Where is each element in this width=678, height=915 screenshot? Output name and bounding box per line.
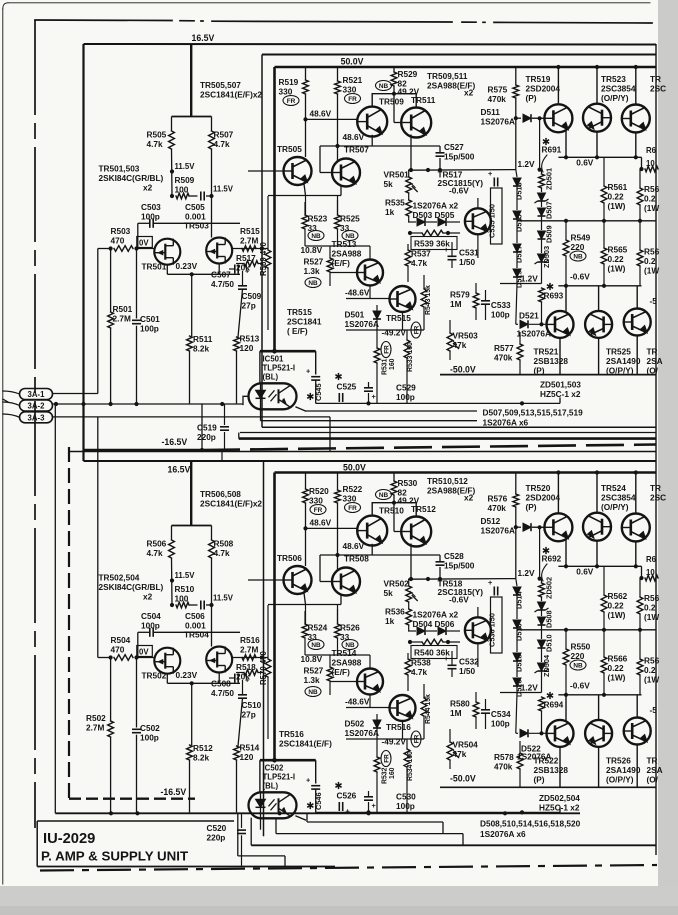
- resistor R60x: [641, 157, 643, 169]
- svg-text:11.5V: 11.5V: [213, 594, 234, 603]
- capacitor C520: [241, 813, 243, 828]
- svg-text:1S2076A x2: 1S2076A x2: [413, 202, 459, 211]
- svg-text:VR503: VR503: [453, 332, 479, 341]
- wire gate lead: [137, 248, 155, 250]
- resistor R511: [187, 336, 193, 351]
- svg-text:FR: FR: [348, 505, 357, 512]
- wire 3A-3: [53, 416, 331, 418]
- -16.5V rail solid: [84, 449, 203, 452]
- transistor TR506: [284, 566, 312, 594]
- svg-text:2SD2004: 2SD2004: [526, 85, 561, 94]
- svg-text:470: 470: [111, 237, 125, 246]
- transistor TR508: [332, 568, 360, 596]
- svg-text:-16.5V: -16.5V: [161, 787, 187, 797]
- capacitor C507: [234, 265, 236, 274]
- zener ZD502: [541, 597, 543, 601]
- long bottom bus: [55, 812, 580, 814]
- node 48.6V: [303, 117, 307, 121]
- svg-text:2SC1841: 2SC1841: [287, 318, 322, 327]
- wire TR509 collector: [372, 94, 394, 107]
- svg-text:100: 100: [175, 186, 189, 195]
- svg-text:48.6V: 48.6V: [343, 542, 365, 551]
- wire TR517 emitter: [477, 234, 479, 258]
- wire TR515 emitter: [402, 312, 404, 330]
- svg-text:1M: 1M: [450, 709, 462, 718]
- svg-text:4.7/50: 4.7/50: [211, 689, 234, 698]
- svg-text:-1.2V: -1.2V: [518, 684, 538, 693]
- resistor R523: [302, 215, 308, 229]
- svg-text:D513: D513: [515, 182, 524, 200]
- wire -1.2V bus: [500, 692, 542, 694]
- svg-text:D509: D509: [545, 225, 554, 243]
- svg-text:1S2076A: 1S2076A: [481, 118, 515, 127]
- svg-text:(O/P/Y): (O/P/Y): [601, 503, 629, 512]
- svg-text:5k: 5k: [384, 589, 394, 598]
- box bottom line 1: [262, 426, 656, 428]
- wire TR505 col: [305, 119, 307, 157]
- svg-text:NB: NB: [308, 280, 318, 287]
- svg-text:33: 33: [308, 224, 318, 233]
- svg-text:-0.6V: -0.6V: [449, 596, 469, 605]
- capacitor C501: [136, 249, 138, 319]
- svg-text:R565: R565: [608, 246, 628, 255]
- svg-text:R549: R549: [571, 234, 591, 243]
- svg-text:2SKI84C(GR/BL): 2SKI84C(GR/BL): [99, 583, 164, 592]
- svg-text:TR506: TR506: [277, 554, 302, 563]
- svg-text:1/50: 1/50: [459, 258, 475, 267]
- svg-text:ZD503: ZD503: [542, 246, 551, 268]
- svg-text:TR: TR: [647, 348, 658, 357]
- transistor TR516: [390, 695, 416, 721]
- svg-text:+: +: [372, 801, 376, 810]
- svg-text:1S2076A x2: 1S2076A x2: [413, 611, 459, 620]
- svg-text:R503: R503: [111, 227, 131, 236]
- svg-text:11.5V: 11.5V: [175, 162, 196, 171]
- svg-text:160: 160: [389, 358, 396, 370]
- connector 3A-3: [20, 412, 53, 423]
- svg-text:R511: R511: [193, 335, 213, 344]
- wire source down: [191, 683, 193, 745]
- wire R507 column: [211, 149, 213, 238]
- staircase line 1 lower: [307, 821, 443, 823]
- svg-text:48.6V: 48.6V: [310, 110, 332, 119]
- svg-text:R508: R508: [214, 540, 234, 549]
- svg-text:NB: NB: [311, 233, 321, 240]
- svg-text:R506: R506: [147, 540, 167, 549]
- svg-text:TR513: TR513: [332, 240, 357, 249]
- diode D520: [513, 678, 521, 686]
- wire 1.2V col: [515, 118, 517, 169]
- transistor TR512: [401, 517, 431, 547]
- FET TR501: [154, 239, 180, 265]
- diode D510: [538, 640, 546, 648]
- svg-text:2SC3854: 2SC3854: [601, 494, 636, 503]
- svg-text:27p: 27p: [242, 711, 256, 720]
- transistor TR509: [357, 107, 387, 137]
- svg-text:C534: C534: [491, 710, 511, 719]
- wire TR509 collector: [372, 503, 394, 516]
- resistor R512: [187, 745, 193, 760]
- svg-text:0.22: 0.22: [608, 664, 624, 673]
- wire R507 column: [211, 558, 213, 647]
- capacitor C508: [234, 674, 236, 683]
- svg-text:3A-1: 3A-1: [28, 390, 46, 399]
- svg-text:C510: C510: [242, 701, 262, 710]
- svg-text:(O/P/Y): (O/P/Y): [601, 94, 629, 103]
- svg-text:R56: R56: [644, 248, 660, 257]
- svg-text:R693: R693: [544, 292, 564, 301]
- resistor R56x right b: [637, 659, 643, 675]
- wire TR507 base: [337, 146, 339, 161]
- svg-text:0.22: 0.22: [608, 602, 624, 611]
- wire 3A-3 feed to lower half: [97, 417, 99, 658]
- svg-text:470: 470: [111, 646, 125, 655]
- svg-text:0.001: 0.001: [185, 213, 206, 222]
- transistor TR523b: [622, 105, 650, 133]
- svg-text:11.5V: 11.5V: [213, 185, 234, 194]
- wire out collectors: [559, 747, 561, 787]
- label C526: [338, 782, 340, 789]
- wire 1.2V bus: [408, 578, 516, 581]
- svg-text:TR519: TR519: [526, 75, 551, 84]
- wire TR513 up: [369, 655, 371, 669]
- capacitor C531: [448, 255, 457, 257]
- resistor R533: [404, 340, 410, 358]
- svg-text:+: +: [444, 245, 448, 254]
- svg-text:R692: R692: [542, 555, 562, 564]
- svg-text:1S2076A: 1S2076A: [481, 527, 515, 536]
- svg-text:(1W): (1W): [608, 202, 626, 211]
- svg-text:C519: C519: [197, 424, 217, 433]
- amp enclosure box lower: [263, 461, 265, 836]
- -16.5V rail lower dashed: [69, 798, 195, 800]
- svg-text:(1W): (1W): [608, 674, 626, 683]
- label 0V box: [137, 646, 153, 657]
- svg-text:120: 120: [240, 753, 254, 762]
- resistor R534: [404, 749, 410, 767]
- capacitor C502: [136, 658, 138, 728]
- resistor R691: [539, 174, 545, 188]
- label * r693: [549, 692, 551, 699]
- svg-text:2SKI84C(GR/BL): 2SKI84C(GR/BL): [99, 174, 164, 183]
- transistor TR523a: [583, 104, 611, 132]
- svg-text:470k: 470k: [494, 763, 513, 772]
- wire LED cathode: [260, 818, 262, 829]
- resistor R549: [563, 240, 569, 256]
- resistor R519: [305, 67, 307, 80]
- resistor R527: [327, 667, 333, 681]
- wire -48.6V: [346, 298, 390, 300]
- resistor R561: [601, 186, 607, 203]
- svg-text:D511: D511: [481, 108, 501, 117]
- svg-text:R6: R6: [646, 555, 657, 564]
- connector 3A-1: [20, 389, 53, 400]
- svg-text:C531: C531: [459, 249, 479, 258]
- resistor R578: [517, 753, 523, 769]
- svg-text:R694: R694: [544, 701, 564, 710]
- svg-text:TR502: TR502: [142, 672, 167, 681]
- resistor R514: [238, 698, 243, 746]
- svg-text:0.23V: 0.23V: [176, 262, 198, 271]
- svg-text:4.7k: 4.7k: [147, 549, 163, 558]
- wire emitters to 0.6V bus: [565, 540, 567, 566]
- wire x202 bus drop: [201, 403, 203, 450]
- svg-text:15p/500: 15p/500: [444, 562, 475, 571]
- svg-text:R533 160: R533 160: [407, 342, 414, 372]
- svg-text:TR506,508: TR506,508: [200, 490, 241, 499]
- svg-text:0.22: 0.22: [608, 193, 624, 202]
- svg-text:R502: R502: [86, 714, 106, 723]
- svg-text:10.8V: 10.8V: [301, 655, 323, 664]
- wire ladder to d521: [516, 693, 517, 734]
- capacitor C505: [189, 195, 198, 197]
- diode D508: [541, 610, 543, 616]
- svg-text:2SC1841(E/F)x2: 2SC1841(E/F)x2: [200, 91, 262, 100]
- svg-text:R515: R515: [240, 227, 260, 236]
- potentiometer VR504: [447, 742, 453, 760]
- staircase line 1 upper: [306, 410, 478, 412]
- potentiometer VR501: [406, 177, 412, 193]
- 16.5V rail lower half: [84, 460, 657, 462]
- svg-text:(P): (P): [526, 94, 537, 103]
- svg-text:16.5V: 16.5V: [192, 33, 215, 43]
- capacitor C530: [368, 802, 370, 812]
- capacitor C509: [242, 271, 244, 286]
- svg-text:3A-3: 3A-3: [28, 413, 46, 422]
- svg-text:2SC1841(E/F): 2SC1841(E/F): [279, 740, 332, 749]
- frame left vertical: [82, 44, 84, 461]
- svg-text:D521: D521: [519, 312, 539, 321]
- label R540 box: [411, 646, 457, 659]
- svg-text:2SC1841(E/F)x2: 2SC1841(E/F)x2: [200, 500, 262, 509]
- svg-text:(P): (P): [534, 776, 545, 785]
- wire TR511 emitter: [410, 544, 412, 580]
- right border: [655, 44, 657, 855]
- transistor TR515: [390, 286, 416, 312]
- svg-text:-5: -5: [650, 706, 658, 715]
- svg-text:HZ5C-1 x2: HZ5C-1 x2: [539, 804, 580, 813]
- svg-text:0.23V: 0.23V: [176, 671, 198, 680]
- svg-text:2SA1490: 2SA1490: [606, 357, 641, 366]
- -16.5V rail dashed: [202, 445, 656, 451]
- resistor R517: [244, 261, 258, 267]
- svg-text:4.7k: 4.7k: [214, 549, 230, 558]
- svg-text:-16.5V: -16.5V: [162, 437, 188, 447]
- svg-text:-0.6V: -0.6V: [449, 187, 469, 196]
- svg-text:NB: NB: [379, 492, 389, 499]
- FET TR502: [154, 648, 180, 674]
- svg-text:ZD502,504: ZD502,504: [539, 794, 580, 803]
- svg-text:R577: R577: [494, 344, 514, 353]
- diode D502: [373, 720, 381, 728]
- wire x222 drop: [221, 450, 223, 461]
- svg-text:C508: C508: [211, 680, 231, 689]
- svg-text:C527: C527: [444, 143, 464, 152]
- svg-text:R537: R537: [411, 250, 431, 259]
- svg-text:100p: 100p: [396, 393, 415, 402]
- svg-text:0.6V: 0.6V: [576, 158, 593, 167]
- svg-text:TLP521-I: TLP521-I: [263, 364, 296, 373]
- svg-text:C505: C505: [185, 203, 205, 212]
- svg-text:R561: R561: [608, 183, 628, 192]
- svg-text:R518: R518: [236, 663, 256, 672]
- resistor R540: [422, 639, 443, 645]
- svg-text:1S2076A x6: 1S2076A x6: [480, 830, 526, 839]
- svg-text:C530: C530: [396, 793, 416, 802]
- capacitor C504: [149, 628, 151, 637]
- svg-text:(1W: (1W: [644, 613, 659, 622]
- svg-text:-5: -5: [650, 297, 658, 306]
- svg-text:C501: C501: [140, 315, 160, 324]
- diode D503 D505: [408, 221, 416, 223]
- svg-text:-1.2V: -1.2V: [518, 275, 538, 284]
- svg-text:-50.0V: -50.0V: [450, 365, 476, 375]
- svg-text:C535 1/50: C535 1/50: [488, 204, 497, 238]
- svg-text:0.22: 0.22: [608, 255, 624, 264]
- resistor R565: [601, 248, 607, 264]
- svg-text:33: 33: [308, 633, 318, 642]
- wire TR517 emitter: [477, 643, 479, 667]
- diode D501: [373, 311, 381, 319]
- svg-text:0V: 0V: [139, 648, 149, 657]
- svg-text:R527: R527: [304, 258, 324, 267]
- svg-text:TR516: TR516: [279, 730, 304, 739]
- svg-text:R579: R579: [450, 291, 470, 300]
- -16.5V dashed feed vertical: [68, 447, 70, 799]
- svg-text:TR502,504: TR502,504: [99, 574, 140, 583]
- wire TR505 base: [248, 170, 284, 172]
- capacitor C546: [311, 785, 320, 787]
- wire opto emitter: [296, 407, 306, 411]
- svg-text:10: 10: [646, 159, 655, 168]
- svg-text:R550: R550: [571, 643, 591, 652]
- resistor R543: [421, 289, 427, 307]
- svg-text:TR514: TR514: [332, 649, 357, 658]
- capacitor C529: [368, 393, 370, 403]
- svg-text:C529: C529: [396, 384, 416, 393]
- svg-text:C526: C526: [337, 792, 357, 801]
- resistor R562: [601, 595, 607, 612]
- wire gate lead: [137, 657, 155, 659]
- svg-text:x2: x2: [464, 494, 474, 503]
- wire TR511 collector: [394, 503, 416, 517]
- svg-text:FR: FR: [384, 754, 391, 763]
- svg-text:TR512: TR512: [411, 505, 436, 514]
- svg-text:0.6V: 0.6V: [576, 567, 593, 576]
- diode D517: [513, 244, 521, 252]
- resistor R692: [539, 583, 545, 597]
- resistor R507: [211, 117, 213, 132]
- wire opto emitter: [296, 816, 306, 820]
- resistor R577: [517, 344, 523, 360]
- transistor TR523a: [583, 513, 611, 541]
- transistor TR525b: [624, 309, 651, 336]
- svg-text:VR502: VR502: [384, 580, 410, 589]
- svg-text:R543 15k: R543 15k: [425, 285, 432, 315]
- resistor R579: [473, 293, 479, 308]
- zener ZD504: [538, 663, 546, 671]
- svg-text:47k: 47k: [453, 341, 467, 350]
- svg-text:FR: FR: [314, 507, 323, 514]
- resistor R566: [601, 657, 607, 673]
- svg-text:P. AMP & SUPPLY UNIT: P. AMP & SUPPLY UNIT: [41, 849, 188, 864]
- svg-text:2.7M: 2.7M: [86, 724, 104, 733]
- svg-text:NB: NB: [311, 642, 321, 649]
- wire opto bus: [316, 811, 560, 813]
- label R539 box: [411, 237, 457, 250]
- svg-text:C506: C506: [185, 612, 205, 621]
- transistor TR513: [357, 260, 383, 286]
- svg-text:0.001: 0.001: [185, 622, 206, 631]
- wire -49 bus: [346, 738, 424, 740]
- transistor TR519: [544, 104, 572, 132]
- svg-text:C525: C525: [337, 383, 357, 392]
- node 48.6V: [303, 526, 307, 530]
- diode D521: [516, 323, 518, 325]
- wire gate rail: [172, 631, 240, 633]
- wire gate right: [232, 248, 268, 250]
- resistor R56x right a: [637, 597, 643, 614]
- zener ZD501: [541, 188, 543, 192]
- resistor R532: [374, 757, 380, 772]
- svg-text:D512: D512: [481, 517, 501, 526]
- wire gate rail: [172, 222, 240, 224]
- wire output bus: [517, 629, 656, 631]
- resistor R526: [335, 624, 341, 638]
- wire 3A-1: [53, 393, 98, 395]
- FET TR504: [206, 647, 232, 673]
- svg-text:470k: 470k: [488, 504, 507, 513]
- wire emitters to 0.6V bus: [565, 131, 567, 157]
- svg-text:FR: FR: [348, 96, 357, 103]
- svg-text:TR508: TR508: [344, 555, 369, 564]
- wire output bus: [517, 220, 656, 222]
- resistor R580: [473, 702, 479, 717]
- wire TR505 base: [248, 579, 284, 581]
- diode D504 D506: [408, 630, 416, 632]
- svg-text:4.7k: 4.7k: [214, 140, 230, 149]
- resistor R550: [563, 649, 569, 665]
- svg-text:TR510: TR510: [379, 507, 404, 516]
- svg-text:C520: C520: [207, 824, 227, 833]
- svg-text:1.3k: 1.3k: [304, 676, 320, 685]
- svg-text:-0.6V: -0.6V: [570, 273, 590, 282]
- svg-text:1S2076A: 1S2076A: [345, 729, 379, 738]
- resistor R570: [267, 605, 269, 659]
- page edge line left: [2, 9, 4, 884]
- svg-text:VR504: VR504: [453, 741, 479, 750]
- svg-text:R510: R510: [175, 585, 195, 594]
- diode D514: [516, 579, 517, 586]
- svg-text:2SA988: 2SA988: [332, 659, 362, 668]
- svg-text:C528: C528: [444, 552, 464, 561]
- svg-text:D514: D514: [515, 590, 524, 609]
- dash-dot frame left: [34, 20, 36, 828]
- svg-text:16.5V: 16.5V: [168, 465, 191, 475]
- scanner grey margin bottom: [0, 886, 678, 915]
- wire -0.6V bus: [558, 285, 641, 287]
- svg-text:100p: 100p: [396, 802, 415, 811]
- transistor TR521: [547, 311, 574, 338]
- svg-text:TR507: TR507: [344, 146, 369, 155]
- svg-text:R56: R56: [644, 657, 660, 666]
- transistor TR514: [357, 669, 383, 695]
- svg-text:2SA988: 2SA988: [332, 250, 362, 259]
- svg-text:R576: R576: [488, 495, 508, 504]
- capacitor C526: [338, 802, 340, 811]
- capacitor C534: [481, 709, 490, 711]
- wire TR505 col: [305, 528, 307, 566]
